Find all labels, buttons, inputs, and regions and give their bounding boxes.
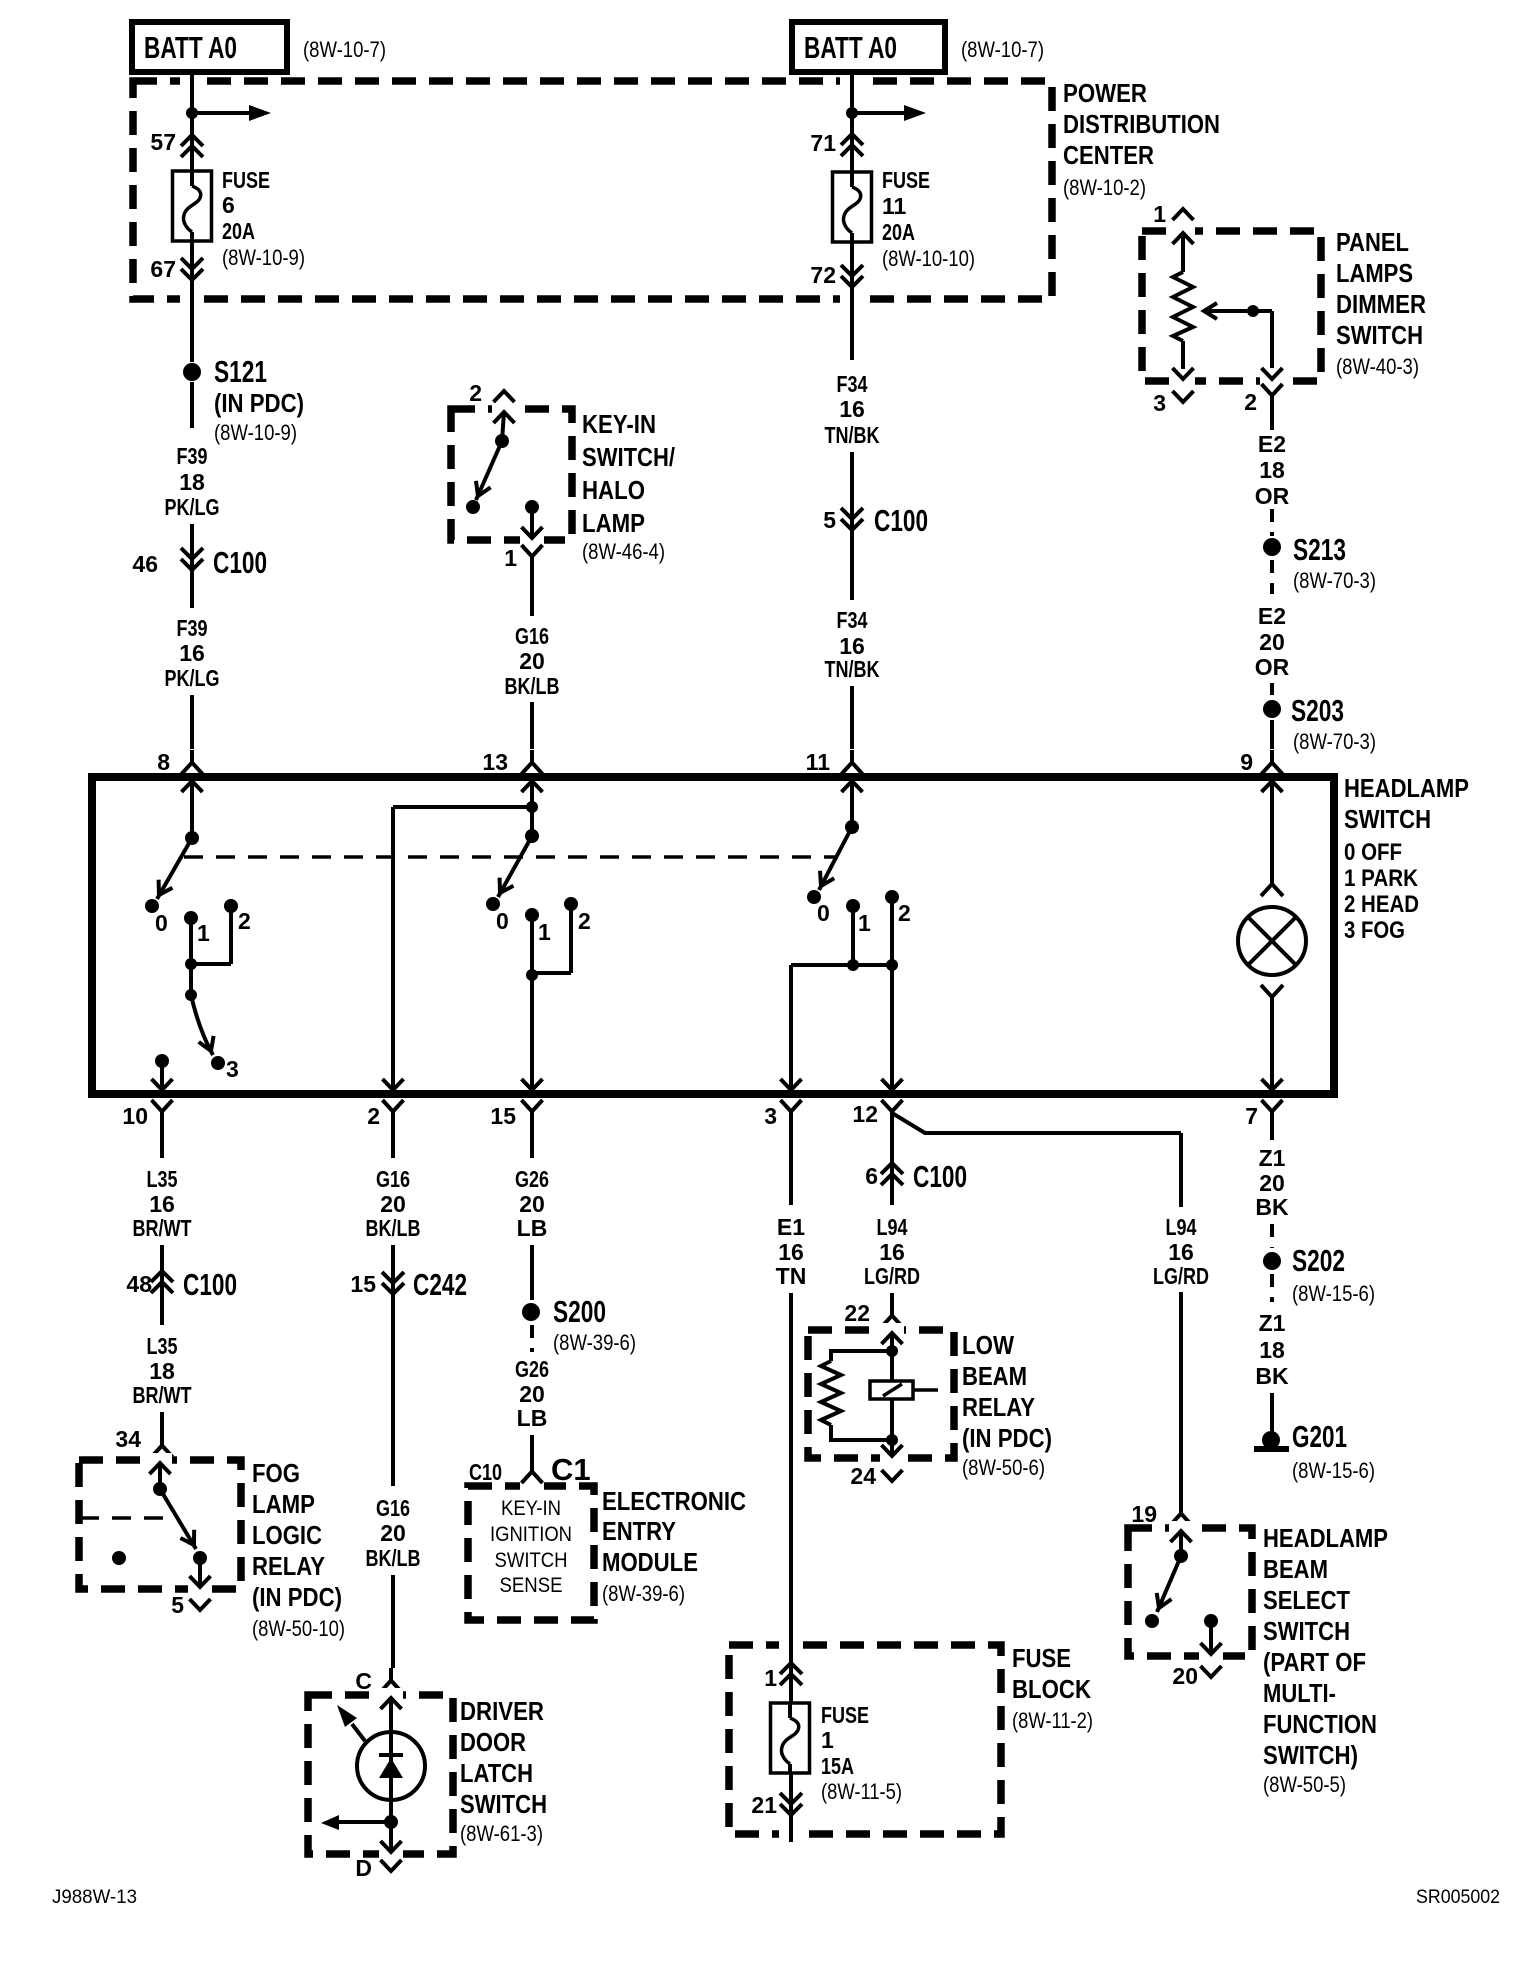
connector pin 1 (halo) <box>504 545 542 571</box>
svg-text:BK/LB: BK/LB <box>366 1545 421 1571</box>
svg-text:BATT A0: BATT A0 <box>144 30 237 65</box>
svg-text:34: 34 <box>115 1426 141 1452</box>
svg-text:G16: G16 <box>515 623 549 649</box>
switch 3 contact 2 <box>885 890 911 926</box>
svg-text:CENTER: CENTER <box>1063 140 1154 170</box>
svg-text:3: 3 <box>764 1103 777 1129</box>
svg-text:(8W-46-4): (8W-46-4) <box>582 539 665 564</box>
switch 1 contact 2 <box>224 899 251 934</box>
arrow into door latch box <box>381 1698 402 1731</box>
beam select right contact to pin 20 <box>1201 1614 1222 1654</box>
wire fuse6 to S121 <box>190 287 194 362</box>
wire label G26 20 LB <box>515 1166 549 1241</box>
svg-text:1: 1 <box>764 1665 777 1691</box>
svg-text:16: 16 <box>179 640 205 666</box>
svg-text:3 FOG: 3 FOG <box>1344 917 1405 944</box>
switch 1 output contact to pin 10 <box>152 1054 173 1090</box>
door latch actuator arrow <box>337 1705 365 1741</box>
ground G201 <box>1254 1419 1375 1483</box>
svg-text:G201: G201 <box>1292 1419 1347 1454</box>
svg-text:BEAM: BEAM <box>962 1361 1027 1391</box>
connector C <box>355 1668 401 1694</box>
BATT A0 box (right) <box>792 22 945 72</box>
svg-text:(8W-10-2): (8W-10-2) <box>1063 175 1146 200</box>
svg-text:TN/BK: TN/BK <box>825 422 880 448</box>
fuse 1 <box>771 1703 810 1773</box>
svg-text:6: 6 <box>222 192 235 218</box>
branch node to pin 2 <box>383 801 539 1090</box>
wire to pin 8 <box>190 695 194 749</box>
wire label G26 20 LB lower <box>515 1356 549 1431</box>
connector pin 10 <box>122 1100 172 1129</box>
wire to C100 pin 5 <box>850 452 854 530</box>
svg-text:MODULE: MODULE <box>602 1547 698 1577</box>
svg-text:C100: C100 <box>183 1267 237 1302</box>
svg-text:C100: C100 <box>213 545 267 580</box>
svg-text:21: 21 <box>751 1792 777 1818</box>
connector C100 pin 5 <box>823 503 928 538</box>
switch 1 pivot <box>185 831 199 845</box>
switch 3 pivot <box>845 820 859 834</box>
svg-text:C1: C1 <box>551 1452 591 1487</box>
svg-text:F39: F39 <box>177 615 208 641</box>
svg-text:RELAY: RELAY <box>962 1392 1035 1422</box>
spliced wire to S202 <box>1270 1224 1274 1248</box>
footer drawing number left <box>52 1887 137 1908</box>
junction node on left feed <box>186 107 198 119</box>
halo switch arm <box>466 412 509 514</box>
headlamp switch box <box>92 777 1334 1094</box>
svg-text:72: 72 <box>810 262 836 288</box>
fuse 6 <box>173 171 212 241</box>
key-in switch/halo lamp label <box>582 409 675 564</box>
svg-text:(8W-39-6): (8W-39-6) <box>553 1330 636 1355</box>
splice S213 <box>1263 532 1376 593</box>
wire pin 15 down <box>530 1124 534 1158</box>
svg-text:(8W-70-3): (8W-70-3) <box>1293 729 1376 754</box>
svg-text:PK/LG: PK/LG <box>165 665 220 691</box>
wire C100 down <box>190 570 194 608</box>
wire to fog relay pin 34 <box>160 1412 164 1438</box>
BATT A0 box (left) <box>132 22 287 72</box>
arrow into box at pin 8 <box>182 781 203 838</box>
wire to relay pin 22 <box>890 1293 894 1308</box>
svg-text:SWITCH: SWITCH <box>460 1789 547 1819</box>
svg-text:2 HEAD: 2 HEAD <box>1344 891 1419 918</box>
relay bottom node <box>886 1434 898 1446</box>
connector pin 3 <box>764 1100 801 1129</box>
svg-text:1: 1 <box>1153 201 1166 227</box>
wire label G16 20 BK/LB <box>505 623 560 699</box>
svg-text:(8W-40-3): (8W-40-3) <box>1336 354 1419 379</box>
branch arrow right (right feed) <box>852 105 926 121</box>
wire label Z1 18 BK <box>1255 1310 1289 1389</box>
svg-text:G16: G16 <box>376 1166 410 1192</box>
svg-text:G16: G16 <box>376 1495 410 1521</box>
wire to connector C <box>391 1575 395 1668</box>
beam select left contact <box>1145 1614 1159 1628</box>
svg-text:S202: S202 <box>1292 1243 1345 1278</box>
driver door latch switch label <box>460 1696 547 1846</box>
svg-text:OR: OR <box>1255 654 1290 680</box>
wire label F34 16 TN/BK lower <box>825 607 880 682</box>
arrow into dimmer box <box>1173 233 1194 244</box>
wire label F39 16 PK/LG <box>165 615 220 691</box>
wire stub below fuse block <box>789 1815 793 1842</box>
svg-text:C10: C10 <box>469 1459 502 1485</box>
connector pin 57 <box>150 129 203 157</box>
svg-text:57: 57 <box>150 129 176 155</box>
switch 2 pivot <box>525 829 539 843</box>
svg-text:0: 0 <box>496 908 509 934</box>
wire label F39 18 PK/LG <box>165 443 220 520</box>
wire into fuse 1 <box>789 1685 793 1703</box>
splice S200 <box>522 1294 636 1355</box>
connector C100 pin 48 <box>126 1267 237 1302</box>
power distribution center label <box>1063 78 1220 200</box>
connector pin 72 <box>810 242 863 288</box>
svg-text:2: 2 <box>578 908 591 934</box>
svg-text:MULTI-: MULTI- <box>1263 1678 1336 1708</box>
svg-text:2: 2 <box>469 380 482 406</box>
svg-text:20A: 20A <box>222 218 255 244</box>
wire to fuse block pin 1 <box>789 1293 793 1663</box>
wire label G16 20 BK/LB lower <box>366 1495 421 1571</box>
door latch junction node <box>384 1815 398 1829</box>
door latch lamp circle <box>357 1732 425 1800</box>
connector D <box>355 1855 401 1881</box>
svg-text:LAMP: LAMP <box>582 508 645 538</box>
svg-text:SWITCH: SWITCH <box>1344 804 1431 834</box>
wire label E1 16 TN <box>776 1214 807 1289</box>
svg-text:(8W-70-3): (8W-70-3) <box>1293 568 1376 593</box>
svg-text:LAMP: LAMP <box>252 1489 315 1519</box>
beam select switch arm <box>1152 1556 1181 1612</box>
wire to connector D <box>381 1822 402 1852</box>
switch 1 arm <box>152 838 192 899</box>
footer drawing number right <box>1416 1887 1500 1908</box>
svg-text:(IN PDC): (IN PDC) <box>962 1423 1052 1453</box>
fuse 6 value label <box>222 167 305 270</box>
svg-text:3: 3 <box>1153 390 1166 416</box>
switch 1 contact 0 <box>145 899 168 936</box>
svg-text:(8W-50-5): (8W-50-5) <box>1263 1772 1346 1797</box>
wire label F34 16 TN/BK <box>825 371 880 448</box>
svg-text:(8W-10-7): (8W-10-7) <box>303 37 386 62</box>
svg-text:BR/WT: BR/WT <box>133 1215 192 1241</box>
connector pin 67 <box>150 241 203 288</box>
svg-text:DIMMER: DIMMER <box>1336 289 1426 319</box>
wire to C100 pin 48 <box>160 1245 164 1293</box>
arrow into beam select box <box>1171 1531 1192 1556</box>
reference (8W-10-7) right <box>961 37 1044 62</box>
wire halo to pin 13 <box>530 569 534 616</box>
svg-text:FUNCTION: FUNCTION <box>1263 1709 1377 1739</box>
connector C1 pin C10 <box>469 1452 591 1487</box>
key-in switch/halo lamp box <box>451 403 572 546</box>
branch arrow right (left feed) <box>192 105 271 121</box>
svg-text:BK/LB: BK/LB <box>505 673 560 699</box>
svg-text:71: 71 <box>810 130 836 156</box>
svg-text:2: 2 <box>238 908 251 934</box>
svg-text:20: 20 <box>1259 1170 1285 1196</box>
svg-text:10: 10 <box>122 1103 148 1129</box>
switch 2 contact wiring <box>522 904 572 1090</box>
connector pin 2 <box>367 1100 403 1129</box>
svg-text:DISTRIBUTION: DISTRIBUTION <box>1063 109 1220 139</box>
switch 1 contact 1 <box>184 911 210 946</box>
svg-text:KEY-IN: KEY-IN <box>582 409 656 439</box>
beam select pivot <box>1174 1549 1188 1563</box>
wire label Z1 20 BK <box>1255 1145 1289 1220</box>
electronic entry module box <box>468 1479 594 1620</box>
svg-text:SWITCH: SWITCH <box>1263 1616 1350 1646</box>
svg-text:LOGIC: LOGIC <box>252 1520 322 1550</box>
svg-text:BLOCK: BLOCK <box>1012 1674 1091 1704</box>
junction node on right feed <box>846 107 858 119</box>
svg-text:19: 19 <box>1131 1501 1157 1527</box>
svg-text:18: 18 <box>179 469 205 495</box>
wire S202 down <box>1270 1274 1274 1302</box>
relay resistor <box>821 1351 892 1440</box>
connector pin 34 <box>115 1426 172 1457</box>
svg-text:20: 20 <box>380 1191 406 1217</box>
svg-text:POWER: POWER <box>1063 78 1147 108</box>
svg-text:L94: L94 <box>877 1214 908 1240</box>
mechanical link dashed line <box>184 855 838 859</box>
svg-text:TN: TN <box>776 1263 807 1289</box>
svg-text:F39: F39 <box>177 443 208 469</box>
svg-text:BR/WT: BR/WT <box>133 1382 192 1408</box>
arrow into box at pin 9 <box>1262 781 1283 880</box>
headlamp beam select switch label <box>1263 1523 1388 1797</box>
svg-text:SWITCH/: SWITCH/ <box>582 442 675 472</box>
svg-text:20: 20 <box>380 1520 406 1546</box>
svg-text:1 PARK: 1 PARK <box>1344 865 1419 892</box>
switch 3 contact 0 <box>807 890 830 926</box>
headlamp switch bulb <box>1238 907 1306 975</box>
svg-text:24: 24 <box>850 1463 876 1489</box>
connector pin 20 <box>1172 1663 1221 1689</box>
svg-text:SWITCH: SWITCH <box>495 1549 568 1572</box>
svg-text:FOG: FOG <box>252 1458 300 1488</box>
key-in ignition switch sense label <box>490 1497 572 1597</box>
svg-text:20A: 20A <box>882 219 915 245</box>
svg-text:(8W-15-6): (8W-15-6) <box>1292 1281 1375 1306</box>
svg-text:RELAY: RELAY <box>252 1551 325 1581</box>
svg-text:16: 16 <box>1168 1239 1194 1265</box>
wire dimmer pin2 down <box>1270 408 1274 430</box>
wire to pin 12 <box>882 965 903 1090</box>
wire to connector C1 <box>530 1435 534 1460</box>
svg-text:C242: C242 <box>413 1267 467 1302</box>
relay coil <box>870 1351 938 1440</box>
door latch diode <box>379 1731 403 1822</box>
svg-text:LG/RD: LG/RD <box>1153 1263 1209 1289</box>
svg-text:5: 5 <box>171 1592 184 1618</box>
arrow into fog relay <box>150 1463 171 1489</box>
svg-text:1: 1 <box>538 919 551 945</box>
svg-text:L94: L94 <box>1166 1214 1197 1240</box>
electronic entry module label <box>602 1486 746 1606</box>
wire label L94 16 LG/RD right <box>1153 1214 1209 1289</box>
fog lamp logic relay label <box>252 1458 345 1641</box>
dimmer resistor <box>1173 233 1193 369</box>
svg-text:13: 13 <box>482 749 508 775</box>
dimmer wiper arm <box>1204 303 1272 368</box>
connector pin 24 <box>850 1463 902 1489</box>
connector pin 8 <box>157 749 202 775</box>
relay top node <box>886 1345 898 1357</box>
fuse block label <box>1012 1643 1093 1733</box>
splice S202 <box>1263 1243 1375 1306</box>
connector pin 11 <box>806 749 863 775</box>
svg-text:(8W-10-10): (8W-10-10) <box>882 246 975 271</box>
fog relay mechanical link <box>80 1516 172 1520</box>
svg-text:ELECTRONIC: ELECTRONIC <box>602 1486 746 1516</box>
wire pin 12 down <box>890 1124 894 1185</box>
fuse 1 value label <box>821 1702 902 1804</box>
svg-text:DRIVER: DRIVER <box>460 1696 544 1726</box>
svg-text:1: 1 <box>821 1727 834 1753</box>
wire to pin 9 <box>1270 720 1274 749</box>
arrow into box at pin 11 <box>842 781 863 827</box>
connector pin 21 (fuse block) <box>751 1773 802 1818</box>
svg-text:1: 1 <box>197 920 210 946</box>
connector pin 1 (dimmer) <box>1153 201 1193 227</box>
svg-text:2: 2 <box>367 1103 380 1129</box>
svg-text:F34: F34 <box>837 607 868 633</box>
driver door latch switch box <box>308 1688 453 1860</box>
svg-text:G26: G26 <box>515 1166 549 1192</box>
arrow into box at pin 13 <box>522 781 543 836</box>
wire label L94 16 LG/RD <box>864 1214 920 1289</box>
wire to S200 <box>530 1245 534 1300</box>
low beam relay box <box>808 1323 954 1464</box>
svg-text:LATCH: LATCH <box>460 1758 533 1788</box>
svg-text:L35: L35 <box>147 1333 178 1359</box>
svg-text:S200: S200 <box>553 1294 606 1329</box>
svg-text:(8W-11-2): (8W-11-2) <box>1012 1708 1093 1733</box>
svg-text:TN/BK: TN/BK <box>825 656 880 682</box>
svg-text:20: 20 <box>519 1381 545 1407</box>
connector C242 pin 15 <box>350 1267 467 1302</box>
svg-text:(8W-10-9): (8W-10-9) <box>222 245 305 270</box>
wire label E2 20 OR <box>1255 603 1290 680</box>
svg-text:G26: G26 <box>515 1356 549 1382</box>
svg-text:3: 3 <box>226 1056 239 1082</box>
svg-text:C: C <box>355 1668 372 1694</box>
wire label L35 18 BR/WT <box>133 1333 192 1408</box>
svg-text:20: 20 <box>1259 629 1285 655</box>
svg-text:Z1: Z1 <box>1259 1145 1286 1171</box>
panel lamps dimmer switch box <box>1142 225 1321 387</box>
wire to C100 pin 46 <box>190 524 194 570</box>
svg-text:BK: BK <box>1255 1194 1289 1220</box>
svg-text:KEY-IN: KEY-IN <box>501 1497 561 1520</box>
svg-text:2: 2 <box>1244 389 1257 415</box>
svg-text:20: 20 <box>1172 1663 1198 1689</box>
svg-text:(IN PDC): (IN PDC) <box>214 388 304 418</box>
svg-text:LAMPS: LAMPS <box>1336 258 1413 288</box>
reference (8W-10-7) left <box>303 37 386 62</box>
wire to pin 13 <box>530 702 534 749</box>
spliced wire to S203 <box>1270 683 1274 695</box>
svg-text:LG/RD: LG/RD <box>864 1263 920 1289</box>
svg-text:20: 20 <box>519 1191 545 1217</box>
svg-text:18: 18 <box>1259 1337 1285 1363</box>
halo lamp contact to pin 1 <box>522 500 543 538</box>
svg-text:16: 16 <box>778 1239 804 1265</box>
arrow into relay <box>882 1333 903 1351</box>
fuse 11 <box>833 172 872 242</box>
svg-text:SWITCH): SWITCH) <box>1263 1740 1358 1770</box>
wire pin 2 down <box>391 1124 395 1158</box>
svg-text:FUSE: FUSE <box>222 167 270 193</box>
switch 2 contact 0 <box>486 897 509 934</box>
connector pin 2 (dimmer) <box>1244 384 1282 415</box>
svg-text:HALO: HALO <box>582 475 645 505</box>
connector pin 7 <box>1245 1100 1282 1129</box>
svg-text:22: 22 <box>844 1300 870 1326</box>
wire label L35 16 BR/WT <box>133 1166 192 1241</box>
switch 1 contact wiring <box>185 906 231 1001</box>
fog lamp logic relay box <box>79 1453 241 1595</box>
spliced wire to S213 <box>1270 509 1274 536</box>
svg-text:(8W-50-6): (8W-50-6) <box>962 1455 1045 1480</box>
svg-text:9: 9 <box>1240 749 1253 775</box>
wire C242 down <box>391 1294 395 1486</box>
connector C100 pin 6 <box>865 1159 967 1194</box>
branch wire pin 12 to right <box>892 1113 1181 1506</box>
svg-text:J988W-13: J988W-13 <box>52 1887 137 1908</box>
svg-text:11: 11 <box>882 193 907 219</box>
svg-text:BK: BK <box>1255 1363 1289 1389</box>
svg-text:1: 1 <box>858 910 871 936</box>
svg-text:20: 20 <box>519 648 545 674</box>
svg-text:BEAM: BEAM <box>1263 1554 1328 1584</box>
svg-text:SENSE: SENSE <box>500 1574 563 1597</box>
svg-text:PANEL: PANEL <box>1336 227 1409 257</box>
bulb lower connector <box>1261 985 1283 1011</box>
svg-text:46: 46 <box>132 551 158 577</box>
svg-text:E1: E1 <box>777 1214 805 1240</box>
svg-text:12: 12 <box>852 1101 878 1127</box>
svg-text:BATT A0: BATT A0 <box>804 30 897 65</box>
connector pin 13 <box>482 749 542 775</box>
svg-text:FUSE: FUSE <box>882 167 930 193</box>
svg-text:E2: E2 <box>1258 603 1286 629</box>
switch 3 contact 1 <box>846 899 871 936</box>
svg-text:(8W-10-9): (8W-10-9) <box>214 420 297 445</box>
fuse 11 value label <box>882 167 975 271</box>
svg-text:18: 18 <box>149 1358 175 1384</box>
svg-text:48: 48 <box>126 1271 152 1297</box>
svg-text:11: 11 <box>806 749 831 775</box>
connector pin 19 <box>1131 1501 1191 1527</box>
connector pin 1 (fuse block) <box>764 1635 802 1691</box>
fuse block box <box>729 1638 1001 1840</box>
svg-text:(8W-10-7): (8W-10-7) <box>961 37 1044 62</box>
svg-text:LB: LB <box>517 1215 548 1241</box>
switch 2 contact 1 <box>525 908 551 945</box>
fog relay left contact <box>112 1551 126 1565</box>
svg-text:S121: S121 <box>214 354 267 389</box>
power distribution center box <box>133 74 1052 305</box>
svg-text:D: D <box>355 1855 372 1881</box>
splice S121 <box>183 354 304 445</box>
switch 2 arm <box>493 836 532 897</box>
